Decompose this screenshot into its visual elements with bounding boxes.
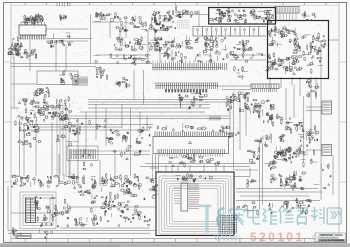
svg-text:520101: 520101 [250,230,304,244]
svg-text:www.: www. [213,232,241,244]
svg-text:.com: .com [309,232,332,244]
